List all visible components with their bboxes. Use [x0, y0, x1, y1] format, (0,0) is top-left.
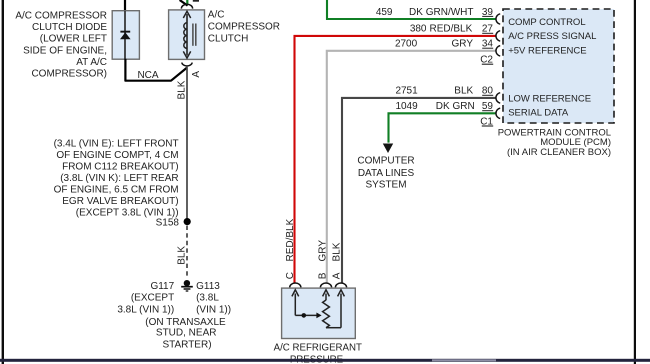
svg-text:BLK: BLK: [454, 86, 473, 97]
svg-text:COMPUTER: COMPUTER: [357, 156, 414, 167]
wire 380 RED/BLK: [295, 36, 496, 284]
wiper arrowhead: [316, 313, 321, 319]
label A/C COMPRESSOR CLUTCH: [208, 9, 280, 44]
wire 2751 BLK: [342, 98, 496, 284]
svg-text:S158: S158: [156, 217, 180, 228]
clutch arrow down: [183, 51, 190, 58]
svg-text:LOW REFERENCE: LOW REFERENCE: [508, 94, 591, 105]
clutch coil L: [184, 23, 187, 49]
svg-text:(3.4L (VIN E): LEFT FRONT: (3.4L (VIN E): LEFT FRONT: [54, 139, 179, 150]
diode internal wire: [124, 11, 126, 60]
connector arc pin 80: [496, 93, 500, 103]
svg-text:A/C PRESS SIGNAL: A/C PRESS SIGNAL: [508, 31, 596, 42]
svg-text:3.8L (VIN 1)): 3.8L (VIN 1)): [117, 304, 174, 315]
svg-text:C: C: [285, 272, 296, 279]
svg-text:COMPRESSOR: COMPRESSOR: [208, 21, 280, 32]
A/C refrigerant pressure sensor box: [282, 288, 356, 338]
PCM caption: [498, 128, 611, 158]
connector arc pin 34: [496, 46, 500, 56]
svg-text:A/C REFRIGERANT: A/C REFRIGERANT: [274, 343, 362, 354]
connector arc pin 59: [496, 108, 500, 118]
svg-text:2700: 2700: [395, 39, 418, 50]
svg-text:(IN AIR CLEANER BOX): (IN AIR CLEANER BOX): [507, 147, 611, 158]
svg-text:(ON TRANSAXLE: (ON TRANSAXLE: [145, 317, 226, 328]
wire NCA (diode to clutch junction): [125, 59, 187, 81]
frame bottom rule: [0, 359, 650, 362]
wire 459 DK GRN/WHT: [327, 0, 496, 19]
label A/C COMPRESSOR CLUTCH DIODE (location): [15, 11, 107, 80]
clutch core bar 1: [192, 24, 194, 46]
wire BLK dashed (S158 to ground): [186, 226, 188, 279]
stub mark top: [193, 0, 199, 2]
svg-text:DK GRN: DK GRN: [436, 101, 475, 112]
diode D (anode triangle): [120, 32, 131, 39]
sensor bottom link A to resistor: [326, 327, 341, 329]
labels G117 / G113: [117, 281, 231, 350]
connector arc pin 27: [496, 31, 500, 41]
svg-text:459: 459: [376, 7, 393, 18]
svg-text:BLK: BLK: [332, 242, 343, 261]
sensor resistor zigzag: [323, 300, 330, 328]
svg-text:A/C: A/C: [208, 9, 225, 20]
svg-text:CLUTCH DIODE: CLUTCH DIODE: [32, 22, 107, 33]
svg-text:(EXCEPT: (EXCEPT: [131, 292, 174, 303]
svg-text:COMP CONTROL: COMP CONTROL: [508, 17, 585, 28]
svg-text:DK GRN/WHT: DK GRN/WHT: [409, 7, 473, 18]
svg-text:OF ENGINE, 6.5 CM FROM: OF ENGINE, 6.5 CM FROM: [54, 185, 179, 196]
svg-text:A/C COMPRESSOR: A/C COMPRESSOR: [15, 11, 107, 22]
svg-text:STUD, NEAR: STUD, NEAR: [156, 328, 217, 339]
svg-text:+5V REFERENCE: +5V REFERENCE: [508, 46, 586, 57]
svg-text:EGR VALVE BREAKOUT): EGR VALVE BREAKOUT): [62, 196, 178, 207]
svg-text:(3.8L: (3.8L: [196, 292, 219, 303]
connector arc sensor A: [335, 283, 346, 287]
connector arc below clutch (terminal A): [182, 63, 193, 66]
svg-text:COMPRESSOR): COMPRESSOR): [31, 68, 107, 79]
svg-text:BLK: BLK: [176, 246, 187, 265]
svg-text:SYSTEM: SYSTEM: [365, 179, 406, 190]
svg-text:CLUTCH: CLUTCH: [208, 33, 249, 44]
svg-text:BLK: BLK: [176, 80, 187, 99]
svg-text:2751: 2751: [395, 86, 418, 97]
svg-text:OF ENGINE COMPT, 4 CM: OF ENGINE COMPT, 4 CM: [56, 150, 178, 161]
diode D (cathode bar): [120, 31, 130, 33]
svg-text:STARTER): STARTER): [162, 339, 211, 350]
svg-text:DATA LINES: DATA LINES: [358, 168, 415, 179]
svg-text:RED/BLK: RED/BLK: [285, 218, 296, 261]
note 3.4L/3.8L harness location: [54, 139, 179, 219]
svg-text:RED/BLK: RED/BLK: [430, 24, 473, 35]
A/C compressor clutch box: [169, 10, 205, 60]
PCM box (dashed): [503, 9, 614, 123]
svg-text:FROM C112 BREAKOUT): FROM C112 BREAKOUT): [62, 162, 179, 173]
PCM pin names: [508, 17, 596, 119]
clutch arrow up: [183, 11, 190, 18]
svg-text:A: A: [332, 272, 343, 279]
sensor arrow A: [338, 290, 345, 328]
A/C compressor clutch diode box: [112, 11, 139, 60]
sensor arrow B: [323, 290, 330, 300]
ground G117/G113: [181, 280, 193, 291]
svg-text:380: 380: [410, 24, 427, 35]
frame left border: [2, 0, 4, 364]
svg-text:G113: G113: [196, 281, 220, 292]
svg-text:SIDE OF ENGINE,: SIDE OF ENGINE,: [23, 45, 107, 56]
svg-text:A: A: [191, 71, 202, 78]
clutch core bar 2: [195, 24, 197, 46]
splice S158 dot: [184, 218, 191, 225]
wire 2700 GRY: [327, 51, 496, 284]
svg-text:NCA: NCA: [137, 70, 158, 81]
connector arc pin 39: [496, 14, 500, 24]
svg-text:1049: 1049: [395, 101, 418, 112]
diode box wire from top: [124, 0, 126, 11]
frame right border: [634, 0, 636, 364]
wire BLK vertical (clutch to S158): [186, 67, 188, 220]
clutch feed wire (green, cut at top): [186, 0, 188, 5]
wire 1049 DK GRN: [389, 113, 496, 142]
clutch feed wire (black diagonal, cut at top): [180, 0, 188, 6]
svg-text:GRY: GRY: [452, 39, 474, 50]
svg-text:(EXCEPT 3.8L (VIN 1)): (EXCEPT 3.8L (VIN 1)): [76, 208, 179, 219]
svg-text:B: B: [317, 272, 328, 279]
arrowhead to data lines: [383, 144, 393, 154]
svg-text:(LOWER LEFT: (LOWER LEFT: [40, 34, 107, 45]
label A/C REFRIGERANT PRESSURE: [274, 343, 362, 364]
svg-text:SERIAL DATA: SERIAL DATA: [508, 108, 569, 119]
svg-text:(3.8L (VIN K): LEFT REAR: (3.8L (VIN K): LEFT REAR: [60, 173, 178, 184]
svg-text:GRY: GRY: [317, 240, 328, 262]
clutch coil double arrow shaft: [186, 14, 188, 56]
svg-text:G117: G117: [150, 281, 174, 292]
sensor wiper wire + junction dot: [295, 314, 317, 316]
connector arc above clutch: [181, 4, 192, 8]
connector arc sensor C: [290, 283, 301, 287]
connector arc sensor B: [320, 283, 331, 287]
svg-text:(VIN 1)): (VIN 1)): [196, 304, 231, 315]
label COMPUTER DATA LINES SYSTEM: [357, 156, 414, 191]
sensor arrow C: [292, 290, 299, 316]
svg-text:AT A/C: AT A/C: [76, 57, 107, 68]
